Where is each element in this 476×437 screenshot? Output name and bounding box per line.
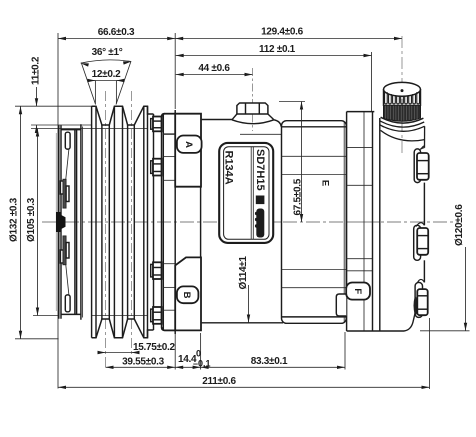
leaf spring upper (66, 149, 69, 179)
name plate inner border (224, 147, 269, 240)
fitting boss 2 (middle rear) (414, 225, 421, 260)
fan line right (groove face extended) (116, 62, 131, 105)
barrel bottom inner line (282, 316, 347, 318)
boss 1 top hook (421, 146, 424, 149)
barrel outline (282, 121, 347, 324)
dimension 15.75±0.2 (99, 352, 138, 354)
extension line rear boss x=429 (429, 318, 431, 389)
extension line ear front face bottom (174, 334, 176, 370)
mid plate rib lines (347, 147, 373, 149)
top mounting ear block (175, 114, 201, 187)
ear front face line (174, 110, 176, 334)
mid plate top (347, 111, 375, 113)
dimension Ø132±0.3 (20, 106, 22, 339)
svg-text:Ø105 ±0.3: Ø105 ±0.3 (26, 197, 37, 242)
extension line head ear x=371 (371, 52, 373, 112)
groove root line top (31, 128, 148, 130)
svg-text:39.55±0.3: 39.55±0.3 (122, 357, 164, 368)
dimension Ø105±0.3 (37, 129, 39, 316)
pulley front flange face (80, 124, 82, 319)
dimension 67.5±0.5 (301, 102, 303, 223)
svg-text:12±0.2: 12±0.2 (92, 69, 121, 80)
mid plate inner vertical (363, 112, 365, 331)
armature outer faint edge (55, 133, 57, 311)
groove 1 vertical centerline (105, 91, 107, 369)
gasket double line (372, 112, 374, 331)
svg-text:44 ±0.6: 44 ±0.6 (198, 63, 230, 74)
tick head OD bottom for dia 120 (420, 330, 470, 332)
head shoulder sweep (381, 130, 425, 140)
dimension 11±0.2 (vertical, left) (36, 87, 38, 106)
extension line front datum x=58 (57, 33, 59, 389)
svg-text:R134A: R134A (223, 151, 235, 185)
dimension Ø114±1 (248, 285, 250, 323)
port label B box (177, 286, 199, 303)
svg-text:67.5±0.5: 67.5±0.5 (292, 178, 303, 215)
12-dim extension verticals (94, 81, 96, 104)
rear head right edge segment between boss1 and boss2 (423, 183, 425, 226)
cap knurled band (dark) (384, 105, 421, 121)
cap base flange rings (381, 117, 424, 123)
svg-text:B: B (181, 292, 192, 299)
dimension 83.3±0.1 (201, 366, 345, 368)
svg-text:0: 0 (196, 349, 201, 359)
front block shoulder line (240, 133, 282, 135)
fitting boss 3 (lower rear) (415, 282, 422, 317)
dimension 44±0.6 (176, 74, 253, 76)
svg-text:E: E (319, 180, 330, 186)
name plate outer border (219, 143, 273, 243)
spring tab upper (65, 132, 70, 149)
svg-text:112 ±0.1: 112 ±0.1 (259, 44, 296, 55)
discharge boss vertical centerline (252, 68, 254, 131)
bottom mounting ear block (175, 257, 201, 330)
extension line ear rear face bottom (200, 333, 202, 370)
rivet cluster upper (60, 181, 63, 194)
extension line ear front face top x=175 (174, 33, 176, 109)
armature front disc (double line) (58, 125, 60, 318)
groove 2 vertical centerline (131, 91, 133, 354)
svg-text:36° ±1°: 36° ±1° (92, 47, 123, 58)
tick head top for 67.5 (279, 101, 305, 103)
shaft nut (57, 213, 66, 232)
barrel lug lower (336, 294, 346, 316)
rear head right edge segment between boss2 and boss3 (423, 260, 425, 282)
extension line head joint bottom x=345 (344, 332, 346, 370)
pulley bottom groove profile (92, 319, 154, 338)
dimension Ø120±0.6 (465, 247, 467, 331)
tick armature disc top / 11mm reference (31, 124, 92, 126)
armature hub plate (74, 130, 76, 315)
boss 2 top hook (416, 223, 424, 227)
dimension 66.6±0.3 (58, 38, 175, 40)
svg-text:Ø114±1: Ø114±1 (238, 256, 249, 290)
rivet cluster lower (60, 250, 63, 263)
dimension 12±0.2 (groove width) (95, 80, 116, 82)
oil cap vertical centerline (401, 36, 403, 155)
svg-text:Ø132 ±0.3: Ø132 ±0.3 (9, 197, 20, 242)
angle dimension 36°±1° with fan lines (81, 60, 132, 63)
rear head right edge into boss1 (418, 148, 425, 153)
pulley top groove profile (92, 106, 154, 125)
label black bar (logo) (256, 209, 264, 238)
svg-text:A: A (183, 141, 194, 148)
discharge hex plug (237, 103, 268, 114)
compressor nose face (double line) (161, 117, 163, 327)
barrel joint line (343, 122, 345, 323)
barrel top inner line (282, 126, 347, 128)
label black square (256, 196, 265, 205)
discharge boss mound (232, 114, 274, 124)
svg-text:SD7H15: SD7H15 (254, 149, 266, 191)
oil filler cap top ellipse (384, 82, 421, 96)
fan line left (groove face extended) (81, 63, 95, 105)
leaf spring lower (66, 265, 69, 295)
cap center dot (401, 89, 404, 92)
svg-text:211±0.6: 211±0.6 (202, 376, 236, 387)
name plate divider lines (250, 147, 252, 239)
svg-text:Ø120±0.6: Ø120±0.6 (454, 204, 465, 246)
front block top edge (202, 119, 232, 121)
pulley valley edge circles (101, 125, 103, 319)
svg-text:11±0.2: 11±0.2 (31, 56, 42, 85)
tick pulley OD bottom (15, 338, 59, 340)
discharge boss right knob (274, 120, 281, 127)
barrel rib lines (282, 155, 347, 157)
cap sides (383, 89, 385, 106)
front block bottom edge (202, 322, 283, 324)
rear head bottom right curve (404, 313, 415, 331)
dimension 39.55±0.3 (106, 366, 176, 368)
svg-text:83.3±0.1: 83.3±0.1 (251, 356, 288, 367)
head right edge below cap (424, 126, 426, 148)
boss 3 top hook (418, 279, 425, 282)
main horizontal centerline axis (42, 221, 459, 223)
nose step lines (163, 133, 175, 135)
tick pulley OD top (15, 105, 92, 107)
dimension 14.4 +0/-0.1 (175, 366, 200, 368)
groove root line bottom (33, 315, 59, 317)
pulley rim edge circles (verticals) (91, 106, 93, 338)
dimension 129.4±0.6 (175, 38, 402, 40)
port label A box (177, 136, 202, 153)
cap castellated slots (385, 92, 420, 104)
svg-text:F: F (352, 288, 363, 294)
head and mid plate bottom edge (347, 330, 404, 332)
dimension 211±0.6 (58, 386, 430, 388)
fitting boss 1 (upper rear) (414, 149, 420, 183)
svg-text:15.75±0.2: 15.75±0.2 (133, 342, 175, 353)
mid plate left edge (346, 112, 348, 331)
boss 3 dark crescent (414, 297, 416, 315)
pulley rear flange (153, 114, 155, 330)
pulley flange second line (82, 127, 84, 318)
svg-text:66.6±0.3: 66.6±0.3 (98, 27, 135, 38)
port label F box (346, 283, 370, 300)
dimension 112±0.1 (176, 55, 372, 57)
front block face between ears (200, 187, 202, 258)
spring tab lower (65, 295, 70, 312)
svg-text:129.4±0.6: 129.4±0.6 (261, 27, 303, 38)
barrel centerline re-draw (260, 221, 380, 223)
clutch mounting bolts (151, 117, 162, 132)
